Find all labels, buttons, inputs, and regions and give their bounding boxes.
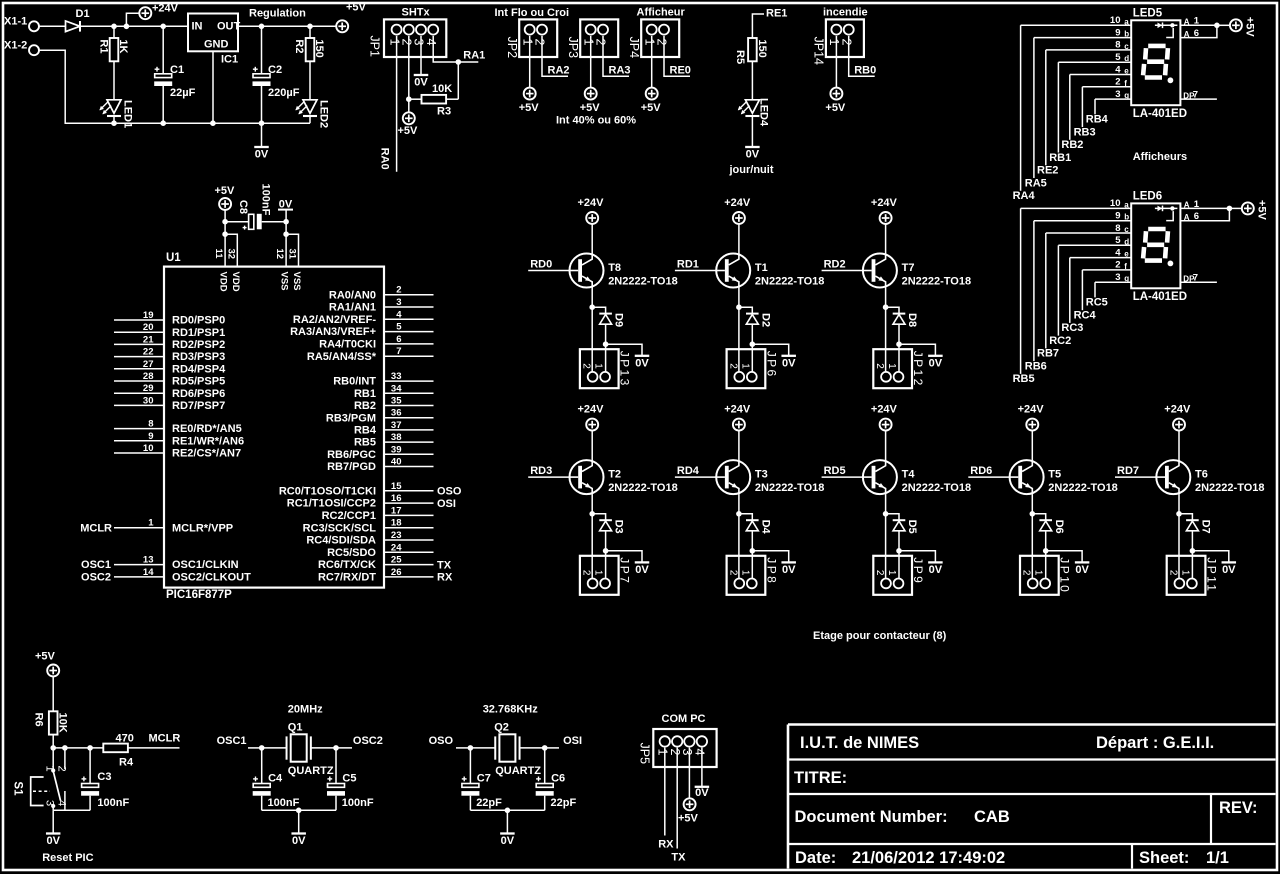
- svg-text:8: 8: [1115, 223, 1120, 234]
- svg-text:34: 34: [391, 383, 402, 394]
- svg-text:220µF: 220µF: [268, 87, 300, 99]
- svg-text:RA5/AN4/SS*: RA5/AN4/SS*: [307, 351, 377, 363]
- svg-text:OSC2/CLKOUT: OSC2/CLKOUT: [172, 572, 251, 584]
- svg-text:RA5: RA5: [1025, 177, 1047, 189]
- svg-text:RB5: RB5: [354, 437, 376, 449]
- svg-text:3: 3: [1115, 89, 1120, 100]
- svg-text:+24V: +24V: [871, 404, 898, 416]
- svg-text:10: 10: [143, 443, 154, 454]
- svg-text:R4: R4: [119, 757, 134, 769]
- svg-text:Date:: Date:: [795, 849, 836, 867]
- svg-text:37: 37: [391, 420, 402, 431]
- svg-text:Int Flo ou Croi: Int Flo ou Croi: [495, 7, 570, 19]
- svg-text:1: 1: [593, 570, 604, 576]
- svg-text:13: 13: [143, 555, 154, 566]
- svg-text:3: 3: [1115, 272, 1120, 283]
- svg-text:RA4: RA4: [1013, 190, 1036, 202]
- svg-text:1: 1: [387, 39, 401, 46]
- svg-text:7: 7: [1193, 273, 1198, 284]
- svg-text:1: 1: [43, 766, 55, 772]
- svg-text:2: 2: [581, 570, 592, 576]
- svg-text:LA-401ED: LA-401ED: [1133, 291, 1187, 303]
- svg-text:15: 15: [391, 481, 402, 492]
- svg-text:R6: R6: [33, 713, 45, 727]
- svg-text:+5V: +5V: [1255, 200, 1267, 221]
- svg-text:RB0/INT: RB0/INT: [333, 376, 376, 388]
- svg-text:LED4: LED4: [758, 98, 770, 127]
- svg-text:2: 2: [400, 39, 414, 46]
- svg-text:0V: 0V: [292, 835, 306, 847]
- svg-text:JP1: JP1: [367, 35, 381, 57]
- svg-text:2: 2: [594, 39, 608, 46]
- svg-text:3: 3: [396, 297, 401, 308]
- svg-text:29: 29: [143, 383, 154, 394]
- svg-text:22: 22: [143, 347, 154, 358]
- svg-text:T7: T7: [902, 262, 915, 274]
- svg-text:IC1: IC1: [221, 54, 238, 66]
- svg-text:1: 1: [739, 363, 750, 369]
- svg-text:R1: R1: [97, 39, 109, 53]
- svg-text:1: 1: [886, 363, 897, 369]
- svg-text:9: 9: [1115, 27, 1120, 38]
- svg-text:16: 16: [391, 493, 402, 504]
- svg-text:2N2222-TO18: 2N2222-TO18: [608, 482, 678, 494]
- svg-text:RB4: RB4: [1086, 114, 1109, 126]
- svg-text:2N2222-TO18: 2N2222-TO18: [1195, 482, 1265, 494]
- svg-text:RD0: RD0: [530, 258, 552, 270]
- svg-text:10K: 10K: [57, 713, 69, 733]
- svg-text:REV:: REV:: [1219, 799, 1258, 817]
- svg-text:RA3/AN3/VREF+: RA3/AN3/VREF+: [290, 326, 376, 338]
- svg-text:RD0/PSP0: RD0/PSP0: [172, 315, 225, 327]
- svg-text:1: 1: [148, 518, 154, 529]
- svg-text:1: 1: [642, 39, 656, 46]
- svg-text:2: 2: [874, 363, 885, 369]
- svg-text:31: 31: [287, 249, 298, 260]
- svg-text:2: 2: [1115, 77, 1120, 88]
- svg-text:+24V: +24V: [1018, 404, 1045, 416]
- svg-text:TX: TX: [671, 852, 686, 864]
- svg-text:JP9: JP9: [911, 557, 925, 585]
- svg-text:+24V: +24V: [724, 197, 751, 209]
- svg-text:2: 2: [396, 285, 401, 296]
- svg-text:RD4/PSP4: RD4/PSP4: [172, 363, 226, 375]
- svg-text:2: 2: [1021, 570, 1032, 576]
- svg-text:1K: 1K: [117, 39, 129, 53]
- svg-text:35: 35: [391, 396, 402, 407]
- svg-text:T4: T4: [902, 469, 916, 481]
- svg-text:T5: T5: [1048, 469, 1061, 481]
- svg-text:7: 7: [396, 346, 401, 357]
- svg-text:21: 21: [143, 334, 154, 345]
- svg-text:28: 28: [143, 371, 154, 382]
- svg-text:VSS: VSS: [291, 272, 302, 291]
- svg-text:2N2222-TO18: 2N2222-TO18: [755, 482, 825, 494]
- svg-text:+5V: +5V: [825, 102, 846, 114]
- svg-text:RC4/SDI/SDA: RC4/SDI/SDA: [306, 535, 376, 547]
- svg-text:JP12: JP12: [911, 351, 925, 388]
- svg-text:T3: T3: [755, 469, 768, 481]
- svg-text:2: 2: [56, 766, 68, 772]
- svg-text:MCLR: MCLR: [80, 522, 112, 534]
- svg-text:RA2/AN2/VREF-: RA2/AN2/VREF-: [293, 314, 376, 326]
- svg-text:JP10: JP10: [1058, 557, 1072, 594]
- svg-text:+24V: +24V: [871, 197, 898, 209]
- svg-text:RC3: RC3: [1061, 322, 1083, 334]
- svg-text:QUARTZ: QUARTZ: [288, 765, 334, 777]
- svg-text:C2: C2: [268, 64, 282, 76]
- svg-text:D3: D3: [613, 520, 625, 534]
- svg-text:2: 2: [1115, 260, 1120, 271]
- svg-text:Départ : G.E.I.I.: Départ : G.E.I.I.: [1096, 734, 1214, 752]
- svg-text:D4: D4: [759, 520, 771, 535]
- svg-text:LA-401ED: LA-401ED: [1133, 108, 1187, 120]
- svg-text:+24V: +24V: [578, 197, 605, 209]
- svg-text:OUT: OUT: [217, 21, 241, 33]
- svg-text:1/1: 1/1: [1206, 849, 1229, 867]
- svg-text:Int 40% ou 60%: Int 40% ou 60%: [556, 115, 636, 127]
- svg-text:32.768KHz: 32.768KHz: [483, 704, 539, 716]
- svg-text:TITRE:: TITRE:: [794, 769, 847, 787]
- svg-text:Q1: Q1: [288, 722, 303, 734]
- svg-text:C6: C6: [551, 773, 565, 785]
- svg-text:LED5: LED5: [1133, 8, 1163, 20]
- svg-text:GND: GND: [204, 39, 229, 51]
- svg-text:RB7/PGD: RB7/PGD: [327, 461, 376, 473]
- svg-text:OSC1: OSC1: [217, 735, 247, 747]
- svg-text:1: 1: [1194, 16, 1200, 27]
- svg-text:JP4: JP4: [627, 37, 641, 59]
- svg-text:1: 1: [656, 749, 670, 756]
- svg-text:RD7: RD7: [1117, 465, 1139, 477]
- svg-text:OSC1: OSC1: [81, 559, 111, 571]
- svg-text:C4: C4: [268, 773, 283, 785]
- svg-text:Document Number:: Document Number:: [795, 808, 948, 826]
- svg-text:+24V: +24V: [578, 404, 605, 416]
- svg-text:RX: RX: [658, 839, 674, 851]
- svg-text:RE0: RE0: [670, 65, 691, 77]
- svg-text:3: 3: [680, 749, 694, 756]
- svg-text:8: 8: [1115, 40, 1120, 51]
- svg-text:38: 38: [391, 432, 402, 443]
- svg-text:5: 5: [1115, 235, 1121, 246]
- svg-text:1: 1: [1194, 199, 1200, 210]
- svg-text:RD5/PSP5: RD5/PSP5: [172, 376, 225, 388]
- svg-text:+5V: +5V: [398, 125, 419, 137]
- svg-text:26: 26: [391, 567, 402, 578]
- svg-text:RA1/AN1: RA1/AN1: [329, 302, 376, 314]
- svg-text:0V: 0V: [635, 357, 649, 369]
- svg-text:20MHz: 20MHz: [288, 704, 323, 716]
- svg-text:36: 36: [391, 408, 402, 419]
- svg-text:1: 1: [739, 570, 750, 576]
- svg-text:1: 1: [520, 39, 534, 46]
- svg-text:1: 1: [1179, 570, 1190, 576]
- svg-text:JP3: JP3: [566, 37, 580, 59]
- svg-text:Regulation: Regulation: [249, 8, 306, 20]
- svg-text:D7: D7: [1200, 520, 1212, 534]
- svg-text:0V: 0V: [255, 149, 269, 161]
- svg-text:RB4: RB4: [354, 425, 377, 437]
- svg-text:RD5: RD5: [824, 465, 846, 477]
- svg-text:R5: R5: [734, 50, 746, 64]
- svg-text:0V: 0V: [501, 835, 515, 847]
- svg-text:RA3: RA3: [609, 65, 631, 77]
- svg-text:2: 2: [874, 570, 885, 576]
- svg-text:14: 14: [143, 567, 154, 578]
- svg-text:+5V: +5V: [215, 185, 236, 197]
- svg-text:D8: D8: [906, 313, 918, 327]
- svg-text:RE2/CS*/AN7: RE2/CS*/AN7: [172, 448, 241, 460]
- svg-text:1: 1: [593, 363, 604, 369]
- svg-text:18: 18: [391, 518, 402, 529]
- svg-text:100nF: 100nF: [268, 797, 300, 809]
- svg-text:C1: C1: [170, 64, 184, 76]
- svg-text:R3: R3: [437, 106, 451, 118]
- svg-text:0V: 0V: [635, 564, 649, 576]
- svg-text:LED2: LED2: [317, 100, 329, 128]
- svg-text:X1-1: X1-1: [4, 16, 27, 28]
- svg-text:100nF: 100nF: [342, 797, 374, 809]
- svg-text:4: 4: [424, 39, 438, 46]
- svg-text:+5V: +5V: [580, 102, 601, 114]
- svg-text:C7: C7: [477, 773, 491, 785]
- svg-text:0V: 0V: [1075, 564, 1089, 576]
- svg-text:RC4: RC4: [1074, 309, 1097, 321]
- svg-text:RB0: RB0: [854, 65, 876, 77]
- svg-text:RB5: RB5: [1013, 373, 1035, 385]
- svg-text:JP14: JP14: [812, 37, 826, 66]
- svg-text:D9: D9: [613, 313, 625, 327]
- svg-text:40: 40: [391, 457, 402, 468]
- svg-text:JP2: JP2: [505, 37, 519, 59]
- svg-text:470: 470: [116, 733, 134, 745]
- svg-text:1: 1: [1033, 570, 1044, 576]
- svg-text:RB6: RB6: [1025, 360, 1047, 372]
- svg-text:3: 3: [412, 39, 426, 46]
- svg-text:+5V: +5V: [346, 2, 367, 14]
- svg-text:RC0/T1OSO/T1CKI: RC0/T1OSO/T1CKI: [279, 485, 376, 497]
- svg-text:4: 4: [396, 309, 402, 320]
- svg-text:C5: C5: [342, 773, 356, 785]
- svg-text:OSI: OSI: [563, 735, 582, 747]
- svg-text:32: 32: [225, 249, 236, 260]
- svg-text:MCLR*/VPP: MCLR*/VPP: [172, 522, 233, 534]
- svg-text:150: 150: [756, 39, 768, 57]
- svg-text:OSC2: OSC2: [81, 572, 111, 584]
- svg-text:+24V: +24V: [1164, 404, 1191, 416]
- svg-text:9: 9: [1115, 211, 1120, 222]
- svg-text:OSC2: OSC2: [353, 735, 383, 747]
- svg-text:19: 19: [143, 310, 154, 321]
- svg-text:RD3/PSP3: RD3/PSP3: [172, 351, 225, 363]
- svg-text:RE1/WR*/AN6: RE1/WR*/AN6: [172, 435, 244, 447]
- svg-text:RC7/RX/DT: RC7/RX/DT: [318, 572, 376, 584]
- svg-text:24: 24: [391, 542, 402, 553]
- svg-text:2: 2: [727, 363, 738, 369]
- svg-text:RA0: RA0: [378, 148, 390, 170]
- svg-text:0V: 0V: [929, 357, 943, 369]
- svg-text:C8: C8: [237, 200, 249, 214]
- svg-text:Sheet:: Sheet:: [1139, 849, 1189, 867]
- svg-text:100nF: 100nF: [260, 184, 272, 216]
- svg-text:LED6: LED6: [1133, 191, 1162, 203]
- svg-text:4: 4: [56, 800, 68, 806]
- svg-text:6: 6: [1194, 211, 1199, 222]
- svg-text:11: 11: [213, 249, 224, 260]
- svg-text:T1: T1: [755, 262, 768, 274]
- svg-text:2N2222-TO18: 2N2222-TO18: [902, 276, 972, 288]
- svg-text:A: A: [1184, 213, 1190, 222]
- svg-text:JP5: JP5: [638, 743, 652, 765]
- svg-text:Afficheur: Afficheur: [637, 7, 686, 19]
- svg-text:RE2: RE2: [1037, 165, 1058, 177]
- svg-text:Etage pour contacteur (8): Etage pour contacteur (8): [813, 630, 947, 642]
- svg-text:+5V: +5V: [35, 651, 56, 663]
- svg-text:Q2: Q2: [494, 722, 509, 734]
- svg-text:21/06/2012 17:49:02: 21/06/2012 17:49:02: [852, 849, 1005, 867]
- svg-text:2: 2: [655, 39, 669, 46]
- svg-text:4: 4: [1115, 64, 1121, 75]
- svg-text:JP13: JP13: [618, 351, 632, 388]
- svg-text:RA0/AN0: RA0/AN0: [329, 289, 376, 301]
- svg-text:RE0/RD*/AN5: RE0/RD*/AN5: [172, 423, 242, 435]
- svg-text:U1: U1: [166, 252, 181, 264]
- svg-text:22pF: 22pF: [551, 797, 577, 809]
- svg-text:incendie: incendie: [823, 7, 868, 19]
- svg-text:4: 4: [1115, 247, 1121, 258]
- svg-text:100nF: 100nF: [97, 797, 129, 809]
- svg-text:2: 2: [668, 749, 682, 756]
- svg-text:JP7: JP7: [618, 557, 632, 585]
- svg-text:1: 1: [827, 39, 841, 46]
- svg-text:33: 33: [391, 371, 402, 382]
- svg-text:OSI: OSI: [437, 498, 456, 510]
- svg-text:jour/nuit: jour/nuit: [729, 164, 774, 176]
- svg-text:PIC16F877P: PIC16F877P: [166, 589, 232, 601]
- svg-text:8: 8: [148, 419, 153, 430]
- svg-text:+24V: +24V: [724, 404, 751, 416]
- svg-text:0V: 0V: [782, 564, 796, 576]
- svg-text:RX: RX: [437, 572, 453, 584]
- svg-text:COM PC: COM PC: [662, 713, 706, 725]
- svg-text:2: 2: [533, 39, 547, 46]
- svg-text:RD1: RD1: [677, 258, 699, 270]
- svg-text:0V: 0V: [695, 787, 709, 799]
- svg-text:OSC1/CLKIN: OSC1/CLKIN: [172, 559, 239, 571]
- svg-text:2: 2: [1167, 570, 1178, 576]
- svg-text:2: 2: [839, 39, 853, 46]
- svg-text:D5: D5: [906, 520, 918, 534]
- svg-text:Reset PIC: Reset PIC: [42, 852, 93, 864]
- svg-text:2N2222-TO18: 2N2222-TO18: [1048, 482, 1118, 494]
- svg-text:0V: 0V: [414, 77, 428, 89]
- svg-text:150: 150: [313, 39, 325, 57]
- svg-text:0V: 0V: [46, 835, 60, 847]
- svg-text:VSS: VSS: [279, 272, 290, 291]
- svg-text:12: 12: [274, 249, 285, 260]
- svg-text:RB7: RB7: [1037, 348, 1059, 360]
- svg-text:VDD: VDD: [218, 272, 229, 292]
- svg-text:25: 25: [391, 555, 402, 566]
- svg-text:+24V: +24V: [152, 3, 179, 15]
- svg-text:RD6: RD6: [970, 465, 992, 477]
- svg-text:RD2: RD2: [824, 258, 846, 270]
- svg-text:+5V: +5V: [1243, 17, 1255, 38]
- svg-text:T8: T8: [608, 262, 621, 274]
- svg-text:22pF: 22pF: [476, 797, 502, 809]
- svg-text:RC2: RC2: [1049, 335, 1071, 347]
- svg-text:OSO: OSO: [437, 486, 462, 498]
- svg-text:RC5: RC5: [1086, 297, 1108, 309]
- svg-text:SHTx: SHTx: [402, 7, 431, 19]
- svg-text:RC3/SCK/SCL: RC3/SCK/SCL: [303, 522, 377, 534]
- svg-text:D2: D2: [759, 313, 771, 327]
- svg-text:S1: S1: [12, 781, 24, 796]
- svg-text:2N2222-TO18: 2N2222-TO18: [608, 276, 678, 288]
- svg-text:D1: D1: [76, 8, 90, 20]
- svg-text:Afficheurs: Afficheurs: [1133, 151, 1187, 163]
- svg-text:OSO: OSO: [429, 735, 454, 747]
- svg-text:3: 3: [43, 800, 55, 806]
- svg-text:1: 1: [581, 39, 595, 46]
- svg-text:22µF: 22µF: [170, 87, 196, 99]
- svg-text:5: 5: [396, 322, 402, 333]
- svg-text:20: 20: [143, 322, 154, 333]
- svg-text:+5V: +5V: [641, 102, 662, 114]
- svg-text:RB2: RB2: [1061, 139, 1083, 151]
- svg-text:IN: IN: [192, 21, 203, 33]
- svg-text:JP6: JP6: [764, 351, 778, 379]
- svg-text:TX: TX: [437, 559, 452, 571]
- svg-text:7: 7: [1193, 90, 1198, 101]
- svg-text:RC6/TX/CK: RC6/TX/CK: [318, 559, 376, 571]
- svg-text:2: 2: [581, 363, 592, 369]
- svg-text:RA4/T0CKI: RA4/T0CKI: [319, 339, 376, 351]
- svg-text:10: 10: [1110, 198, 1121, 209]
- svg-text:JP8: JP8: [764, 557, 778, 585]
- svg-text:1: 1: [886, 570, 897, 576]
- svg-text:39: 39: [391, 444, 402, 455]
- svg-text:VDD: VDD: [230, 272, 241, 292]
- svg-text:+5V: +5V: [519, 102, 540, 114]
- svg-text:CAB: CAB: [974, 808, 1010, 826]
- svg-text:6: 6: [396, 334, 401, 345]
- svg-text:2: 2: [727, 570, 738, 576]
- svg-text:RB3/PGM: RB3/PGM: [326, 412, 376, 424]
- svg-text:MCLR: MCLR: [149, 733, 181, 745]
- svg-text:QUARTZ: QUARTZ: [495, 765, 541, 777]
- svg-text:2N2222-TO18: 2N2222-TO18: [902, 482, 972, 494]
- svg-text:RA2: RA2: [548, 65, 570, 77]
- svg-text:RD6/PSP6: RD6/PSP6: [172, 388, 225, 400]
- svg-text:A: A: [1184, 18, 1190, 27]
- svg-text:RB1: RB1: [354, 388, 376, 400]
- svg-text:D6: D6: [1053, 520, 1065, 534]
- svg-text:0V: 0V: [782, 357, 796, 369]
- svg-text:RB3: RB3: [1074, 126, 1096, 138]
- svg-text:17: 17: [391, 505, 402, 516]
- svg-text:RB1: RB1: [1049, 152, 1071, 164]
- svg-text:2N2222-TO18: 2N2222-TO18: [755, 276, 825, 288]
- svg-text:10K: 10K: [432, 83, 452, 95]
- svg-text:10: 10: [1110, 15, 1121, 26]
- svg-text:6: 6: [1194, 28, 1199, 39]
- svg-text:T6: T6: [1195, 469, 1208, 481]
- svg-text:9: 9: [148, 431, 153, 442]
- svg-text:0V: 0V: [746, 149, 760, 161]
- svg-text:RC1/T1OSI/CCP2: RC1/T1OSI/CCP2: [287, 498, 376, 510]
